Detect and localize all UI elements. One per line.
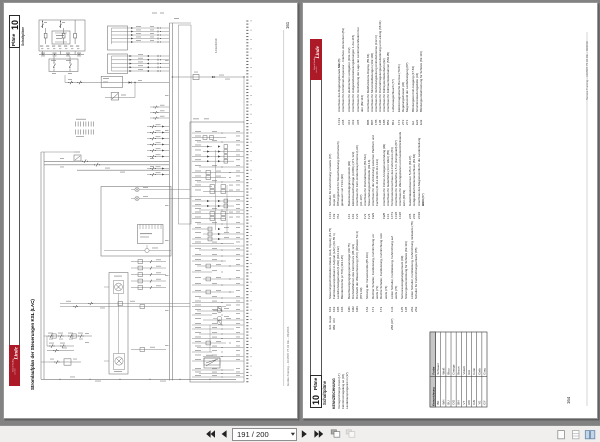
chapter title Plaene left <box>11 34 16 46</box>
previous page button <box>222 430 227 437</box>
wire 1X2 pin <box>112 70 170 72</box>
switch row S7 <box>49 361 81 363</box>
long wire row y303 <box>60 303 190 305</box>
colour column BU <box>445 332 447 407</box>
svg-text:YE: YE <box>477 401 481 405</box>
motor M1 <box>114 281 124 294</box>
controller pin row 3 <box>197 141 244 143</box>
fuse F2 <box>60 20 62 28</box>
chapter number 10 left <box>10 19 20 29</box>
connector pin array 2X2 <box>75 130 77 135</box>
pump wires <box>118 294 120 354</box>
colour column GN <box>471 332 473 407</box>
right page <box>302 2 598 419</box>
output contact row 4 <box>147 144 169 146</box>
sensor G1 <box>217 308 222 313</box>
relay box K4 <box>101 76 122 87</box>
fuse F1 <box>42 20 44 28</box>
last page button <box>314 430 318 437</box>
controller pin row 48 <box>199 373 244 375</box>
wire row y349 <box>131 349 166 351</box>
wire 1X1 pin <box>112 34 170 36</box>
next page button <box>302 430 307 437</box>
output contact row 2 <box>147 132 169 134</box>
connector 1X1 box <box>108 26 128 50</box>
colour column RD <box>465 332 467 407</box>
sensor G2 <box>217 316 222 321</box>
controller pin row 20 <box>192 228 212 230</box>
page number 161 <box>285 21 290 28</box>
single page view icon <box>558 431 565 439</box>
switch S2 contact <box>69 69 71 72</box>
contact K1.2 <box>62 33 65 38</box>
controller pin row 1 <box>192 132 244 134</box>
svg-text:WH: WH <box>441 400 445 405</box>
chapter box 10 left <box>9 15 20 48</box>
svg-text:Rot: Rot <box>467 370 471 375</box>
contact K3.1 wire <box>44 160 169 162</box>
controller pin row 2 <box>192 137 226 139</box>
controller pin row 40 <box>199 333 244 335</box>
colour column WH <box>440 332 442 407</box>
bus label marks <box>165 59 169 62</box>
long wire row y306 <box>60 306 190 308</box>
wire 15 feed <box>65 82 169 84</box>
controller pin row 31 <box>192 291 234 293</box>
wire 1X1 pin <box>112 38 170 40</box>
wire 1X2 pin <box>112 55 170 57</box>
two page view icon active <box>585 431 589 439</box>
relay K8 <box>204 358 220 368</box>
svg-text:Blau: Blau <box>446 368 450 374</box>
switch row S6b <box>47 350 74 352</box>
colour column VT <box>460 332 462 407</box>
svg-text:OG: OG <box>452 399 456 404</box>
svg-text:Kennzeichnung: Kennzeichnung <box>432 387 435 406</box>
controller pin row 11 <box>197 181 244 183</box>
svg-text:Grau: Grau <box>482 368 486 375</box>
controller pin row 15 <box>192 205 234 207</box>
output contact row 7 <box>147 168 169 170</box>
drawing title left page <box>30 299 35 390</box>
valve row Y5 <box>131 287 166 289</box>
labels above controller <box>193 118 199 119</box>
svg-text:Grün: Grün <box>472 368 476 375</box>
controller pin row 47 <box>192 369 234 371</box>
subtitle Schaltplaene right <box>322 380 327 404</box>
controller frame 1A1 <box>179 25 192 224</box>
connector 1X2 box <box>108 54 128 74</box>
controller pin row 41 <box>192 338 244 340</box>
connector 4X2 board <box>138 225 164 244</box>
svg-text:Orange: Orange <box>452 364 456 374</box>
wire 1X1 pin <box>112 31 170 33</box>
ground bus bottom <box>41 378 236 380</box>
wire 30 bus <box>39 54 84 56</box>
svg-text:GN: GN <box>472 400 476 405</box>
inner link column b <box>226 185 228 232</box>
sensor B1 <box>145 248 149 252</box>
contact S3 <box>70 81 72 84</box>
output contact row 5 <box>147 150 169 152</box>
aux contact row 2 <box>150 112 169 114</box>
contact K1.3 <box>74 33 77 38</box>
controller pin row 17 <box>192 213 244 215</box>
controller pin row 21 <box>203 233 244 235</box>
controller pin row 22 <box>192 238 244 240</box>
colour column BK <box>435 332 437 407</box>
switch row S6 <box>47 345 74 347</box>
connector strip 6X1 <box>246 21 248 22</box>
valve row Y1 <box>131 261 166 263</box>
contact K3.2 wire <box>44 164 169 166</box>
feed wire L1 <box>40 152 42 379</box>
wire 31 feed <box>105 97 135 99</box>
svg-text:BN: BN <box>457 400 461 404</box>
previous view icon <box>331 430 336 434</box>
svg-text:Violett: Violett <box>462 366 466 374</box>
diode V2 <box>129 81 132 83</box>
wire to node J1 <box>172 76 235 78</box>
output contact row 3 <box>147 138 169 140</box>
page number 164 <box>566 397 571 404</box>
legend bottom lines <box>337 372 349 409</box>
valve row Y3 <box>131 274 166 276</box>
legend small item 2B4 <box>390 318 394 330</box>
relay K2 contact <box>193 74 199 79</box>
controller pin row 37 <box>203 319 244 321</box>
controller pin row 27 <box>197 265 244 267</box>
page number input box <box>232 428 297 441</box>
controller partition b <box>190 245 244 247</box>
legend block row 2 <box>328 131 425 218</box>
controller pin row 19 <box>197 223 244 225</box>
chapter box 10 right <box>310 375 322 408</box>
indicator H1 <box>135 187 139 191</box>
bus bar negative <box>171 23 173 381</box>
legend small row 4 <box>328 316 336 330</box>
colour column OG <box>450 332 452 407</box>
controller pin row 23 <box>192 243 234 245</box>
chapter title Plaene right <box>313 378 318 390</box>
aux contact row 1 <box>150 106 169 108</box>
first page button <box>206 430 210 437</box>
contact S4 <box>79 81 81 84</box>
controller pin row 29 <box>203 278 244 280</box>
linde logo right page <box>310 39 322 80</box>
controller pin row 49 <box>192 376 244 378</box>
power module A2 enclosure <box>101 187 171 257</box>
feed wire L2 <box>43 152 45 379</box>
table header column <box>430 332 436 407</box>
svg-text:1X12/4X10: 1X12/4X10 <box>214 38 218 53</box>
switch row S5 <box>47 335 92 337</box>
wire colour table <box>430 332 487 407</box>
relay K1 inner box <box>52 31 70 44</box>
left page <box>3 2 298 419</box>
controller pin row 18 <box>192 218 226 220</box>
wire 1X1 pin <box>112 41 170 43</box>
controller pin row 10 <box>192 177 226 179</box>
svg-text:Gelb: Gelb <box>477 368 481 375</box>
motor M2 <box>114 354 125 370</box>
controller pin row 14 <box>192 200 244 202</box>
controller pin row 8 <box>199 166 244 168</box>
controller pin row 9 <box>192 172 244 174</box>
toolbar <box>0 425 600 442</box>
output contact row 6 <box>147 156 169 158</box>
colour column BN <box>455 332 457 407</box>
node J1 <box>243 76 244 77</box>
continuous view icon <box>572 431 579 439</box>
controller pin row 13 <box>203 191 244 193</box>
svg-text:Material Handling: Material Handling <box>313 57 316 70</box>
controller pin row 28 <box>192 271 212 273</box>
controller partition a <box>190 196 244 198</box>
controller pin row 6 <box>192 156 244 158</box>
controller pin row 42 <box>192 342 226 344</box>
terminal labels row <box>40 46 43 47</box>
controller pin row 36 <box>192 314 212 316</box>
controller pin row 7 <box>192 160 234 162</box>
controller pin row 25 <box>192 255 244 257</box>
connector pin array 2X1 <box>75 122 77 127</box>
footer text left page <box>286 327 290 386</box>
svg-text:Linde: Linde <box>315 45 321 59</box>
title block border right page <box>586 32 588 406</box>
valve row Y2 <box>131 267 166 269</box>
colour column GY <box>481 332 483 407</box>
legend block row 1 <box>337 20 423 125</box>
controller pin row 16 <box>199 209 244 211</box>
switch S1 contact <box>53 69 55 72</box>
connector X1 marks <box>41 53 45 54</box>
pump unit enclosure <box>109 273 128 375</box>
contact K1.1 <box>44 33 47 38</box>
indicator H2 <box>135 196 139 200</box>
svg-text:BU: BU <box>446 400 450 404</box>
right page chapter band <box>310 39 322 408</box>
inner link column a <box>215 150 217 230</box>
svg-text:Weiß: Weiß <box>441 367 445 374</box>
bus bar positive <box>168 23 170 381</box>
controller pin row 24 <box>199 249 244 251</box>
output contact row 8 <box>147 174 169 176</box>
svg-text:VT: VT <box>462 401 466 405</box>
dropdown arrow <box>290 432 296 437</box>
left page chapter band <box>9 15 20 386</box>
labels above trunk <box>152 13 157 14</box>
relay module K1 enclosure <box>39 20 85 51</box>
controller pin row 5 <box>203 151 244 153</box>
controller pin row 32 <box>199 297 244 299</box>
controller pin row 45 <box>203 356 244 358</box>
svg-text:BK: BK <box>436 401 440 405</box>
controller pin row 35 <box>197 310 244 312</box>
controller pin row 44 <box>192 351 212 353</box>
linde logo left page <box>9 345 20 386</box>
controller pin row 4 <box>192 146 212 148</box>
svg-text:Braun: Braun <box>457 366 461 374</box>
subtitle Schaltplaene left <box>21 26 25 45</box>
controller pin row 39 <box>192 328 234 330</box>
switch S1 box <box>49 59 78 72</box>
controller pin row 26 <box>192 260 226 262</box>
labels bottom cluster <box>85 332 89 335</box>
controller N1 LAC enclosure <box>190 122 244 382</box>
legend section header <box>332 378 336 409</box>
next view icon <box>346 430 351 434</box>
relay coil K4 <box>111 93 119 101</box>
valve row Y4 <box>131 280 166 282</box>
wire 1X2 pin <box>112 66 170 68</box>
svg-text:Schwarz: Schwarz <box>436 363 440 375</box>
footer text right page <box>585 41 589 100</box>
controller pin row 33 <box>192 302 244 304</box>
controller pin row 38 <box>192 324 244 326</box>
controller pin row 30 <box>192 284 244 286</box>
legend block row 3 <box>328 221 418 312</box>
node J0 <box>134 82 135 83</box>
wire S1 to bus <box>53 57 55 63</box>
svg-text:Farbe: Farbe <box>431 366 435 374</box>
controller pin row 43 <box>197 347 244 349</box>
controller pin row 34 <box>192 306 226 308</box>
wire 1X2 pin <box>112 59 170 61</box>
aux contact row 3 <box>150 117 169 119</box>
output contact row 1 <box>147 126 169 128</box>
svg-text:GY: GY <box>482 400 486 404</box>
relay K3 coil <box>74 155 81 161</box>
bottom left verticals <box>46 336 48 346</box>
diode V1 <box>212 76 215 78</box>
wire 1X1 pin <box>112 27 170 29</box>
inner link column c <box>209 325 211 352</box>
extra boxes bottom cluster <box>52 334 56 338</box>
colour column YE <box>476 332 478 407</box>
wire 1X2 pin <box>112 63 170 65</box>
controller pin row 12 <box>192 186 212 188</box>
chapter number 10 right <box>311 395 321 405</box>
controller pin row 46 <box>192 360 244 362</box>
title block border left page <box>283 30 285 386</box>
wire row y170 <box>77 169 169 171</box>
